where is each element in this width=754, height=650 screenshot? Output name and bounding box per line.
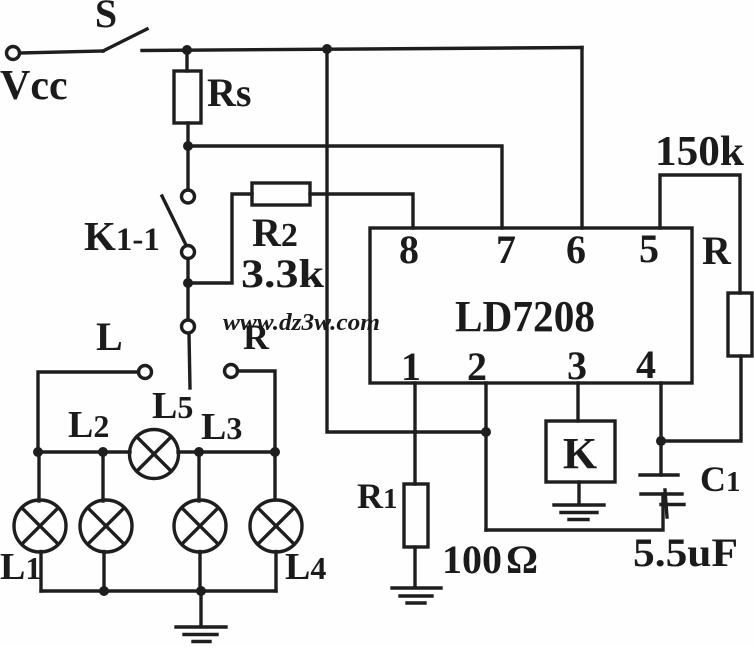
relay K: [546, 421, 615, 482]
wire bottom bus: [41, 589, 276, 592]
wire pin 1 to R1: [413, 383, 416, 484]
op-amp U1 LD7208 body: [370, 228, 692, 383]
svg-text:K1-1: K1-1: [84, 213, 160, 259]
wire lamp L4 bottom: [274, 552, 277, 592]
svg-text:L5: L5: [152, 385, 193, 427]
wire Rs bottom to node: [186, 123, 189, 146]
wire lamp bus right: [178, 450, 275, 453]
svg-text:4: 4: [636, 342, 656, 387]
wire rail to Rs top: [185, 50, 188, 71]
wire pin 2 down: [484, 383, 487, 530]
lamp L5: [130, 430, 179, 479]
node bus L2 tap: [98, 447, 108, 457]
svg-text:L4: L4: [285, 546, 326, 588]
svg-text:6: 6: [566, 227, 586, 272]
node junction top rail / left vertical: [322, 44, 332, 54]
svg-text:L1: L1: [0, 546, 41, 588]
svg-text:2: 2: [467, 344, 487, 389]
node junction pin4 / 150k / C1: [656, 436, 666, 446]
wire L contact to lamp bus: [38, 372, 139, 452]
wire lamp L3 bottom: [198, 552, 201, 592]
svg-text:7: 7: [496, 227, 516, 272]
node bus left corner: [33, 447, 43, 457]
node bottom bus L2: [99, 586, 109, 596]
wire bus to lamp L4: [273, 452, 276, 500]
selector switch blade: [189, 334, 190, 389]
svg-text:Rs: Rs: [207, 70, 251, 115]
wire R2 right to pin 8: [310, 194, 413, 228]
wire pin 5 to 150k resistor: [660, 175, 740, 293]
svg-text:R: R: [702, 228, 732, 273]
ground R1: [392, 547, 441, 603]
svg-text:100Ω: 100Ω: [442, 537, 538, 582]
selector switch pole contact: [182, 320, 195, 333]
lamp L1: [14, 500, 66, 552]
svg-text:LD7208: LD7208: [455, 292, 595, 341]
ground lamps: [176, 591, 226, 642]
switch K1-1 blade: [162, 196, 186, 245]
terminal Vcc: [7, 47, 20, 60]
wire bus to lamp L3: [197, 452, 200, 501]
wire lamp L2 bottom: [102, 552, 105, 592]
wire pin 3 to relay K: [576, 383, 579, 421]
svg-text:5: 5: [639, 226, 659, 271]
switch K1-1 upper contact: [182, 190, 195, 203]
svg-text:L3: L3: [201, 406, 242, 448]
wire pin 4 down to C1: [659, 383, 662, 475]
wire node down to switch K1-1: [186, 146, 189, 190]
wire bus to lamp L1: [37, 452, 40, 501]
svg-text:8: 8: [399, 227, 419, 272]
node junction below K1-1: [183, 278, 193, 288]
svg-text:R2: R2: [252, 210, 298, 255]
node junction Rs bottom: [183, 141, 193, 151]
switch K1-1 lower contact: [182, 246, 195, 259]
resistor 150k: [728, 293, 752, 356]
node bus right corner: [270, 447, 280, 457]
wire node to pin 7: [188, 146, 502, 228]
node bottom bus L3: [196, 586, 206, 596]
svg-text:Vcc: Vcc: [0, 63, 68, 109]
ground relay K: [554, 482, 604, 520]
terminal R contact: [225, 365, 238, 378]
wire bus to lamp L2: [101, 452, 104, 501]
svg-text:3.3k: 3.3k: [241, 251, 325, 296]
switch S blade: [103, 29, 147, 51]
wire lamp bus left: [38, 450, 130, 453]
wire top rail: [142, 48, 582, 51]
resistor Rs: [174, 71, 201, 123]
svg-text:L: L: [96, 314, 123, 359]
node bus L3 tap: [194, 447, 204, 457]
node junction pin2 row: [481, 427, 491, 437]
wire node to R2 left: [188, 194, 252, 283]
wire lamp L1 bottom: [39, 552, 42, 592]
wire 150k bottom to pin4 node: [661, 356, 741, 441]
svg-text:1: 1: [401, 344, 421, 389]
svg-text:www.dz3w.com: www.dz3w.com: [223, 310, 380, 336]
wire Vcc to switch S: [21, 51, 104, 53]
svg-text:150k: 150k: [655, 129, 745, 175]
wire R contact to lamp bus: [238, 371, 276, 452]
svg-text:K: K: [563, 429, 597, 478]
lamp L3: [174, 500, 226, 552]
wire node down to selector pole: [186, 283, 189, 320]
svg-text:L2: L2: [68, 404, 109, 446]
capacitor C1: [640, 475, 684, 517]
resistor R1: [404, 484, 428, 547]
svg-text:5.5uF: 5.5uF: [633, 530, 738, 575]
terminal L contact: [139, 366, 152, 379]
svg-text:C1: C1: [700, 459, 741, 499]
wire rail to pin 6: [580, 48, 583, 229]
svg-text:3: 3: [567, 343, 587, 388]
svg-text:S: S: [95, 0, 117, 36]
wire lower contact to node: [186, 259, 189, 284]
lamp L2: [80, 500, 132, 552]
wire C1 bottom to pin 2: [486, 494, 663, 530]
lamp L4: [250, 500, 302, 552]
resistor R2: [252, 183, 310, 205]
node junction top rail / Rs: [182, 45, 192, 55]
wire left vertical to pins 1-2 row: [327, 49, 486, 432]
svg-text:R1: R1: [357, 476, 398, 516]
